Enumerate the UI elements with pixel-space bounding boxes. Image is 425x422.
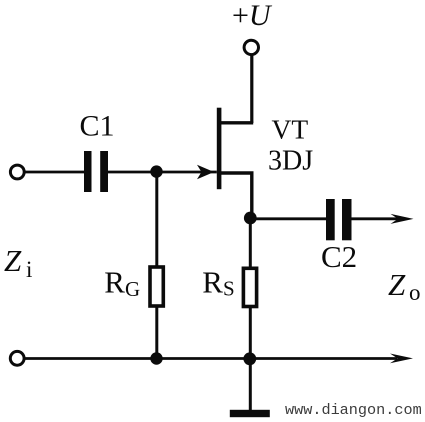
node RG bottom junction bbox=[150, 352, 162, 364]
wire input to C1 bbox=[25, 171, 84, 174]
input terminal bbox=[10, 165, 24, 179]
ground bbox=[230, 410, 270, 417]
wire RG to bottom rail bbox=[155, 307, 158, 359]
svg-text:RS: RS bbox=[202, 264, 234, 300]
svg-text:C2: C2 bbox=[321, 239, 357, 274]
wire source node to C2 bbox=[250, 217, 326, 220]
resistor RS bbox=[243, 268, 256, 306]
node RS bottom junction bbox=[243, 352, 256, 365]
capacitor C1 bbox=[84, 151, 92, 192]
svg-text:o: o bbox=[409, 280, 421, 305]
transistor VT source lead bbox=[221, 173, 252, 218]
svg-text:RG: RG bbox=[104, 265, 140, 301]
wire node to RG bbox=[155, 172, 158, 266]
wire junction to ground bbox=[249, 359, 252, 411]
svg-text:VT: VT bbox=[272, 114, 309, 145]
node source output bbox=[244, 212, 257, 225]
svg-text:Z: Z bbox=[4, 243, 22, 278]
capacitor C2 bbox=[326, 199, 335, 240]
svg-text:i: i bbox=[26, 257, 32, 282]
transistor VT (JFET) channel bar bbox=[217, 108, 222, 190]
svg-text:C1: C1 bbox=[80, 110, 115, 143]
resistor RG bbox=[150, 267, 163, 306]
svg-text:www.diangon.com: www.diangon.com bbox=[285, 401, 422, 419]
power terminal +U bbox=[244, 40, 258, 54]
wire RS to bottom rail bbox=[249, 307, 252, 360]
node gate junction bbox=[150, 165, 162, 177]
svg-text:+U: +U bbox=[232, 0, 273, 32]
transistor VT gate lead with arrow bbox=[108, 171, 217, 174]
transistor VT drain lead bbox=[221, 121, 253, 124]
wire source node to RS bbox=[249, 218, 252, 267]
wire bottom rail with arrow bbox=[25, 357, 397, 360]
wire C2 to output with arrow bbox=[352, 217, 399, 220]
wire +U to drain bbox=[250, 55, 253, 123]
svg-text:3DJ: 3DJ bbox=[268, 146, 313, 177]
svg-text:Z: Z bbox=[388, 267, 406, 302]
bottom-left terminal bbox=[10, 351, 24, 365]
